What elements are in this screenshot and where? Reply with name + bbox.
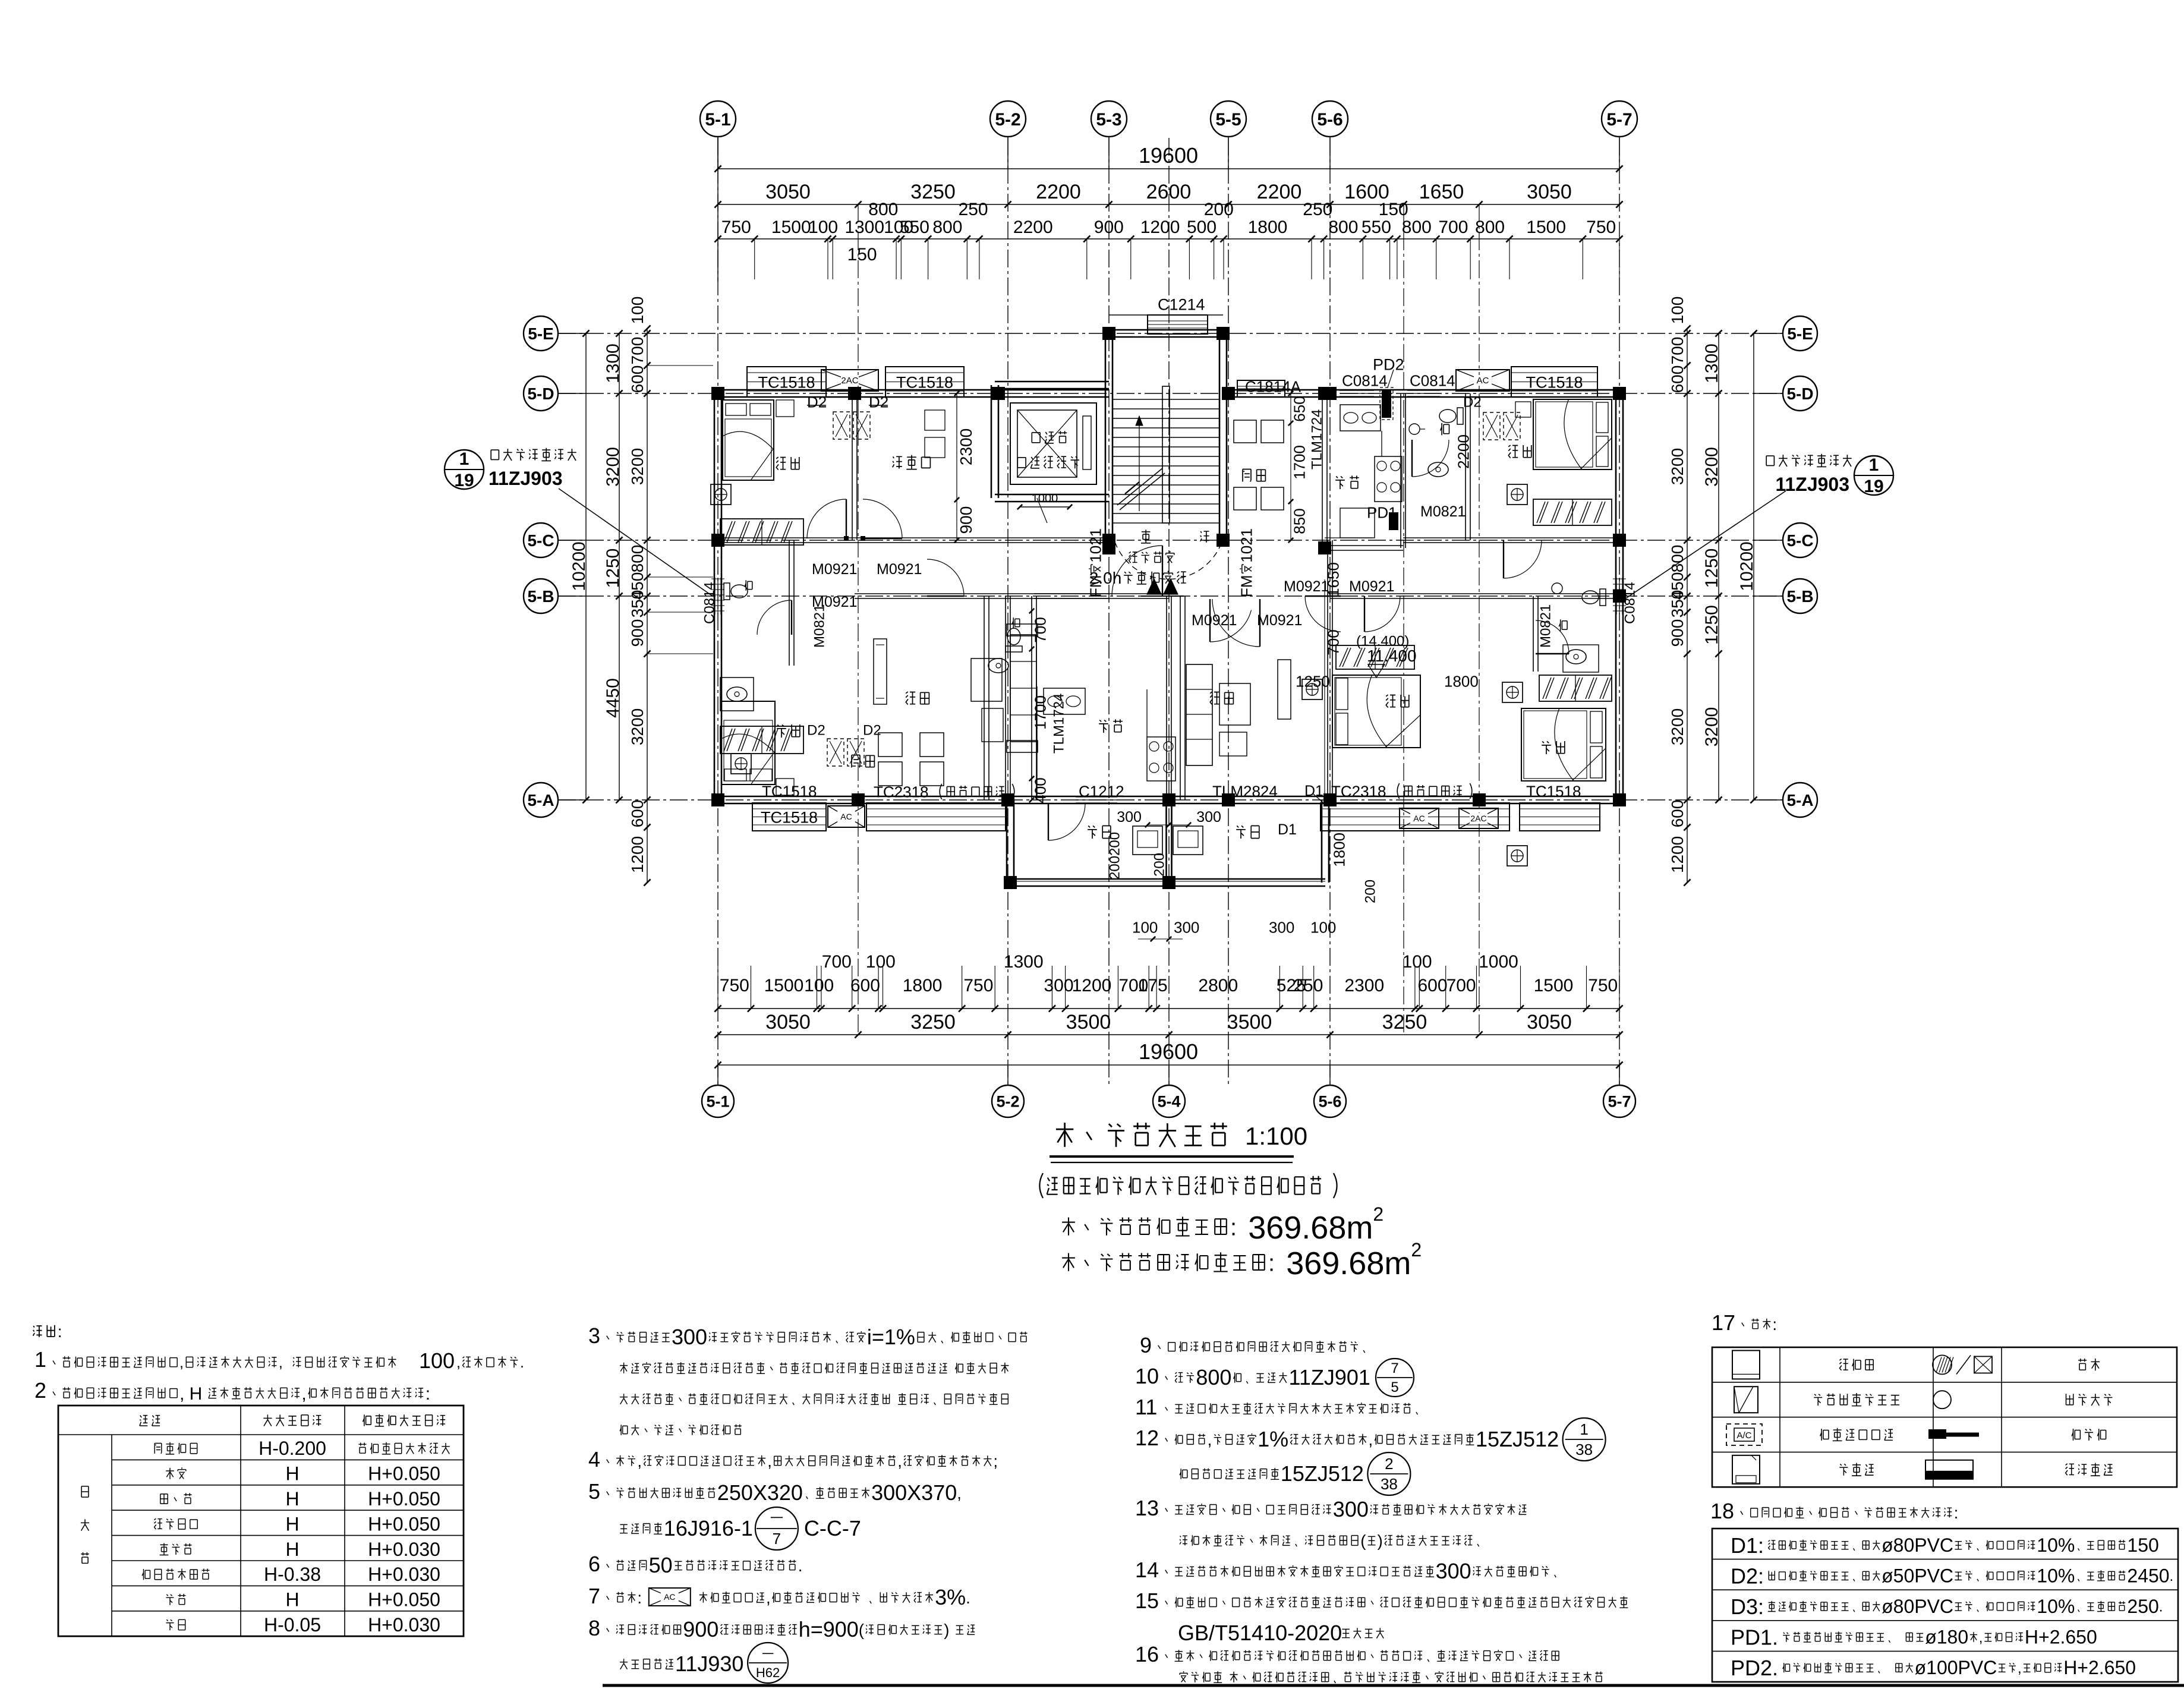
svg-text:,: , [2018, 1660, 2022, 1677]
svg-text:100: 100 [419, 1348, 455, 1373]
svg-text:1:100: 1:100 [1245, 1122, 1307, 1150]
svg-text:1500: 1500 [771, 218, 811, 237]
svg-text:100: 100 [866, 952, 896, 972]
svg-text:800: 800 [1328, 218, 1358, 237]
svg-text:1200: 1200 [1668, 836, 1687, 873]
svg-text:800: 800 [932, 218, 962, 237]
svg-text:2: 2 [1373, 1203, 1383, 1225]
svg-text:,: , [637, 1452, 642, 1470]
svg-text:H+0.050: H+0.050 [368, 1488, 440, 1510]
svg-text:600: 600 [1668, 365, 1687, 393]
svg-text:750: 750 [963, 976, 993, 995]
svg-text:7: 7 [1391, 1360, 1398, 1376]
svg-text:TC1518: TC1518 [761, 809, 818, 827]
svg-text:H-0.200: H-0.200 [259, 1438, 326, 1459]
svg-text:5-7: 5-7 [1608, 1093, 1631, 1111]
svg-text:2: 2 [34, 1378, 46, 1403]
svg-text:2300: 2300 [1344, 976, 1384, 995]
svg-text:50: 50 [649, 1553, 673, 1577]
svg-text:1000: 1000 [1032, 492, 1058, 505]
svg-text:19: 19 [454, 471, 474, 490]
svg-text:D3:: D3: [1731, 1595, 1764, 1619]
svg-text:100: 100 [1310, 918, 1336, 936]
svg-text:300: 300 [1174, 918, 1199, 936]
svg-text:11.400: 11.400 [1367, 647, 1417, 665]
svg-text:5-D: 5-D [1786, 385, 1813, 403]
svg-text:550: 550 [1362, 218, 1391, 237]
svg-text:750: 750 [720, 976, 749, 995]
svg-text:FM: FM [1237, 575, 1255, 597]
svg-text:C1814A: C1814A [1245, 377, 1301, 395]
svg-text:2: 2 [1385, 1455, 1393, 1473]
svg-text:1300: 1300 [1004, 952, 1044, 972]
structural columns [711, 327, 1626, 889]
notes 1-2 [33, 1322, 524, 1404]
right dimension chains [1668, 297, 1757, 886]
svg-text:1500: 1500 [1534, 976, 1574, 995]
svg-text:,: , [456, 1354, 461, 1371]
svg-text:H+0.030: H+0.030 [368, 1539, 440, 1560]
svg-text:H: H [285, 1513, 299, 1534]
svg-text:C0814: C0814 [702, 582, 718, 624]
svg-text:15: 15 [1135, 1589, 1159, 1613]
svg-text:5-B: 5-B [527, 587, 554, 606]
svg-text:300: 300 [1333, 1497, 1369, 1521]
svg-text:ø50PVC: ø50PVC [1882, 1565, 1953, 1586]
svg-text:1700: 1700 [1290, 445, 1308, 480]
svg-text:16J916-1: 16J916-1 [664, 1516, 753, 1540]
svg-text:5-E: 5-E [528, 324, 554, 343]
building walls [714, 330, 1623, 803]
svg-text:H: H [285, 1539, 299, 1560]
svg-text:, H: , H [179, 1384, 202, 1404]
svg-text:M0921: M0921 [1284, 578, 1329, 595]
svg-text:100: 100 [808, 218, 838, 237]
svg-text:600: 600 [1417, 976, 1447, 995]
svg-text:A/C: A/C [1737, 1430, 1751, 1441]
svg-text:D1: D1 [1304, 783, 1323, 799]
svg-text:38: 38 [1381, 1475, 1398, 1493]
svg-text:250: 250 [1293, 976, 1323, 995]
svg-text::: : [1772, 1315, 1777, 1334]
svg-text:7: 7 [588, 1584, 600, 1608]
svg-text:369.68m: 369.68m [1248, 1210, 1373, 1246]
svg-text::: : [637, 1589, 642, 1607]
svg-text:,: , [897, 1452, 902, 1470]
svg-text:1650: 1650 [1324, 562, 1342, 597]
svg-text:300: 300 [1436, 1559, 1471, 1583]
svg-text:3%: 3% [935, 1585, 966, 1609]
svg-text:11ZJ903: 11ZJ903 [1775, 474, 1849, 495]
svg-text:6: 6 [588, 1552, 600, 1576]
svg-text:一: 一 [770, 1511, 783, 1526]
svg-text:PD1.: PD1. [1731, 1625, 1778, 1650]
svg-text:.: . [966, 1589, 970, 1607]
svg-text:15ZJ512: 15ZJ512 [1476, 1427, 1559, 1451]
svg-text:250: 250 [2127, 1596, 2158, 1617]
svg-text:1800: 1800 [1248, 218, 1288, 237]
svg-text:H+0.050: H+0.050 [368, 1463, 440, 1485]
svg-text:600: 600 [628, 365, 647, 393]
svg-text:400: 400 [1031, 777, 1049, 803]
svg-text:1: 1 [459, 449, 469, 469]
svg-text:TC1518: TC1518 [1526, 374, 1583, 392]
right corridor wall and doors [1305, 395, 1520, 632]
svg-text::: : [426, 1384, 430, 1404]
svg-text:AC: AC [840, 812, 852, 821]
svg-text:800: 800 [628, 545, 647, 573]
svg-text:14: 14 [1135, 1558, 1159, 1582]
right unit rooms [1186, 399, 1612, 866]
svg-text:): ) [1378, 1532, 1383, 1550]
svg-text:1000: 1000 [1479, 952, 1518, 972]
svg-text:3200: 3200 [628, 448, 647, 485]
svg-text:(: ( [859, 1621, 865, 1639]
svg-text:ø80PVC: ø80PVC [1882, 1596, 1953, 1617]
svg-text:FM: FM [1086, 575, 1104, 597]
svg-text:350: 350 [1668, 590, 1687, 618]
svg-text:C1212: C1212 [1079, 782, 1124, 800]
svg-text:M0921: M0921 [1257, 612, 1302, 629]
svg-text:8: 8 [588, 1616, 600, 1640]
svg-text:2200: 2200 [1454, 434, 1472, 469]
svg-text:TLM2824: TLM2824 [1212, 782, 1278, 800]
svg-text:5-1: 5-1 [705, 110, 730, 130]
sheet border line [603, 1684, 2184, 1687]
svg-text:5-2: 5-2 [995, 110, 1020, 130]
svg-text:3200: 3200 [1702, 447, 1722, 487]
svg-text:900: 900 [1094, 218, 1124, 237]
left unit bedroom/activity/bath [711, 391, 975, 754]
svg-text:1250: 1250 [1702, 605, 1722, 645]
svg-text:D2: D2 [807, 723, 825, 739]
svg-text:17: 17 [1712, 1310, 1735, 1335]
svg-text:1800: 1800 [1444, 672, 1479, 690]
top grid bubbles 5-1..5-7 [700, 101, 1637, 169]
right callout 1/19 11ZJ903 [1623, 454, 1893, 600]
svg-text:H+0.050: H+0.050 [368, 1513, 440, 1534]
svg-text:19: 19 [1864, 477, 1883, 496]
svg-text:3250: 3250 [910, 1011, 956, 1033]
svg-text:3250: 3250 [910, 181, 956, 203]
svg-text:3: 3 [588, 1324, 600, 1348]
furnishing details [731, 393, 1597, 796]
svg-text:2AC: 2AC [841, 376, 858, 386]
svg-text:700: 700 [1438, 218, 1468, 237]
svg-text:M0921: M0921 [1349, 578, 1394, 595]
svg-text:M0921: M0921 [1192, 612, 1237, 629]
svg-text:H+0.030: H+0.030 [368, 1564, 440, 1585]
svg-text:D2:: D2: [1731, 1564, 1764, 1588]
svg-text:1021: 1021 [1086, 528, 1104, 563]
svg-text:100: 100 [1403, 952, 1432, 972]
svg-text:3250: 3250 [1382, 1011, 1427, 1033]
svg-text:5-C: 5-C [1786, 531, 1813, 550]
svg-text:3200: 3200 [1702, 707, 1722, 747]
svg-text:300: 300 [1269, 918, 1294, 936]
svg-text:10: 10 [1135, 1364, 1159, 1388]
side windows C0814 [702, 578, 1638, 624]
notes 3-8 [588, 1324, 1028, 1683]
svg-text:.: . [2170, 1568, 2174, 1584]
svg-text:19600: 19600 [1139, 143, 1198, 168]
balconies 阳台 [1007, 783, 1379, 941]
svg-text:19600: 19600 [1139, 1039, 1198, 1064]
svg-text:1300: 1300 [603, 344, 623, 383]
svg-text:10%: 10% [2037, 1565, 2075, 1586]
svg-text:): ) [944, 1621, 949, 1639]
svg-text:,: , [766, 1589, 771, 1607]
svg-text:5-C: 5-C [527, 531, 554, 550]
stair with treads and arrows [1089, 386, 1222, 596]
svg-text:PD2: PD2 [1373, 356, 1404, 374]
svg-text:ø100PVC: ø100PVC [1915, 1657, 1997, 1678]
svg-text:11: 11 [1135, 1395, 1157, 1419]
svg-text:7: 7 [773, 1530, 781, 1548]
svg-text:5-2: 5-2 [996, 1093, 1019, 1111]
svg-text:D1:: D1: [1731, 1533, 1764, 1558]
svg-text:,: , [1979, 1630, 1983, 1646]
svg-text:5-B: 5-B [1786, 587, 1813, 606]
svg-text:12: 12 [1135, 1426, 1159, 1450]
svg-text:38: 38 [1575, 1441, 1593, 1458]
svg-text:700: 700 [822, 952, 852, 972]
svg-text:1200: 1200 [1140, 218, 1180, 237]
svg-text:13: 13 [1135, 1496, 1159, 1520]
svg-text:D1: D1 [1278, 821, 1297, 838]
svg-text:650: 650 [1290, 396, 1308, 421]
svg-text:300: 300 [1044, 976, 1073, 995]
svg-text:M0821: M0821 [1420, 503, 1466, 520]
svg-text:3050: 3050 [765, 1011, 811, 1033]
svg-text:300: 300 [672, 1325, 707, 1349]
svg-text:1700: 1700 [1031, 695, 1049, 730]
notes 9-16 [1135, 1333, 1628, 1683]
svg-text:350: 350 [628, 590, 647, 618]
svg-text:TC1518: TC1518 [1526, 782, 1581, 800]
svg-text:,: , [1208, 1430, 1212, 1449]
svg-text:1500: 1500 [764, 976, 804, 995]
svg-text:10200: 10200 [569, 541, 589, 591]
svg-text:16: 16 [1135, 1642, 1159, 1666]
svg-text:ø180: ø180 [1925, 1627, 1968, 1648]
svg-text:.: . [2159, 1599, 2163, 1615]
svg-text:C0814: C0814 [1622, 582, 1638, 624]
svg-text:M0821: M0821 [1538, 604, 1554, 648]
svg-text:AC: AC [1477, 376, 1489, 386]
svg-text:5-E: 5-E [1787, 324, 1813, 343]
svg-text:600: 600 [1668, 800, 1687, 828]
svg-text:250: 250 [959, 200, 988, 219]
svg-text:15ZJ512: 15ZJ512 [1281, 1461, 1364, 1486]
svg-text:H-0.38: H-0.38 [264, 1564, 321, 1585]
svg-text:1200: 1200 [628, 836, 647, 873]
svg-text:1500: 1500 [1526, 218, 1566, 237]
title 四、五层平面图 1:100 [1039, 1122, 1422, 1281]
svg-text:2AC: 2AC [1470, 814, 1486, 823]
svg-text:9: 9 [1140, 1333, 1152, 1357]
svg-text:150: 150 [1379, 200, 1408, 219]
svg-text:1300: 1300 [1702, 344, 1722, 383]
svg-text:150: 150 [847, 245, 877, 264]
left dimension chains [569, 297, 713, 886]
svg-text:3050: 3050 [1527, 181, 1572, 203]
svg-text:200200: 200200 [1107, 832, 1123, 880]
bottom grid bubbles [702, 1065, 1635, 1117]
svg-text:H62: H62 [756, 1665, 780, 1680]
svg-text:ø80PVC: ø80PVC [1882, 1534, 1953, 1556]
svg-text:800: 800 [1402, 218, 1432, 237]
svg-text:AC: AC [664, 1592, 675, 1602]
svg-text:2200: 2200 [1257, 181, 1302, 203]
svg-text:5-5: 5-5 [1215, 110, 1241, 130]
svg-text:H+0.030: H+0.030 [368, 1614, 440, 1636]
svg-text:900: 900 [957, 506, 975, 534]
svg-text:C1214: C1214 [1158, 296, 1205, 314]
svg-text:PD2.: PD2. [1731, 1656, 1778, 1680]
svg-text:.: . [520, 1354, 524, 1371]
svg-text:200: 200 [1363, 880, 1379, 903]
svg-text:H-0.05: H-0.05 [264, 1614, 321, 1636]
svg-text:800: 800 [868, 200, 898, 219]
svg-text:2600: 2600 [1146, 181, 1192, 203]
svg-text:4: 4 [588, 1447, 600, 1471]
floor level table [58, 1406, 464, 1636]
svg-text:H+2.650: H+2.650 [2063, 1657, 2136, 1678]
svg-text:100: 100 [1668, 297, 1687, 324]
svg-text:750: 750 [721, 218, 751, 237]
svg-text:300X370: 300X370 [871, 1480, 957, 1505]
svg-text:1: 1 [1869, 455, 1879, 475]
svg-text::: : [1230, 1214, 1237, 1240]
svg-text:1300: 1300 [844, 218, 884, 237]
svg-text:M0921: M0921 [877, 561, 922, 578]
svg-text:11J930: 11J930 [675, 1652, 743, 1676]
svg-text:800: 800 [1475, 218, 1505, 237]
svg-text:1800: 1800 [903, 976, 943, 995]
svg-text:11ZJ903: 11ZJ903 [489, 468, 563, 489]
svg-text:550: 550 [900, 218, 929, 237]
svg-text:h=900: h=900 [799, 1617, 859, 1641]
svg-text:3200: 3200 [603, 447, 623, 487]
svg-text:1200: 1200 [1072, 976, 1112, 995]
svg-text:10%: 10% [2037, 1596, 2075, 1617]
svg-text:900: 900 [1668, 619, 1687, 647]
svg-text:2300: 2300 [957, 428, 975, 465]
svg-text:5-6: 5-6 [1318, 1093, 1341, 1111]
svg-text:100: 100 [1132, 918, 1158, 936]
svg-text:3500: 3500 [1066, 1011, 1111, 1033]
svg-text:800: 800 [1196, 1365, 1231, 1389]
svg-text:200: 200 [1152, 853, 1168, 877]
centre unit dining/kitchen/bath [1234, 391, 1472, 543]
elevator (无机房无障碍电梯) [991, 382, 1109, 523]
svg-text:1250: 1250 [1702, 549, 1722, 588]
svg-text:4450: 4450 [603, 678, 623, 718]
bottom dimension chains [714, 952, 1622, 1069]
svg-text:750: 750 [1588, 976, 1618, 995]
svg-text:600: 600 [628, 800, 647, 828]
svg-text:700: 700 [1324, 629, 1342, 655]
svg-text:5: 5 [1391, 1379, 1398, 1395]
svg-text:TC2318: TC2318 [1331, 782, 1386, 800]
svg-text:3200: 3200 [1668, 708, 1687, 745]
svg-text:,: , [279, 1354, 283, 1371]
svg-text:H+2.650: H+2.650 [2025, 1627, 2097, 1648]
right grid bubbles [1754, 316, 1817, 817]
svg-text:,: , [1369, 1430, 1373, 1449]
svg-text:1650: 1650 [1419, 181, 1464, 203]
svg-text:1021: 1021 [1237, 528, 1255, 563]
svg-text:2: 2 [1411, 1239, 1422, 1261]
svg-text:TC1518: TC1518 [758, 374, 815, 392]
svg-text:AC: AC [1413, 814, 1425, 823]
svg-text:D2: D2 [807, 393, 827, 411]
hole schedule table 18 [1710, 1499, 2178, 1682]
legend table 17 [1712, 1310, 2177, 1487]
svg-text:175: 175 [1138, 976, 1168, 995]
svg-text:5-A: 5-A [527, 791, 554, 809]
top windows and AC platforms [747, 296, 1597, 420]
svg-text:TLM1724: TLM1724 [1309, 409, 1325, 469]
svg-text:700: 700 [628, 337, 647, 365]
svg-text::: : [1268, 1250, 1275, 1276]
svg-text:2450: 2450 [2127, 1565, 2169, 1586]
svg-text:5-6: 5-6 [1317, 110, 1342, 130]
svg-text:100: 100 [804, 976, 834, 995]
svg-text:10%: 10% [2037, 1534, 2075, 1556]
svg-text:3050: 3050 [765, 181, 811, 203]
left unit lower rooms [721, 596, 1175, 803]
svg-text:M0921: M0921 [812, 561, 857, 578]
left grid bubbles [524, 316, 586, 817]
svg-text:1: 1 [34, 1347, 46, 1372]
svg-text:C0814: C0814 [1342, 371, 1388, 389]
svg-text:,: , [767, 1452, 772, 1470]
top dimension chains [714, 138, 1622, 282]
svg-text:H: H [285, 1488, 299, 1510]
svg-text:3500: 3500 [1227, 1011, 1272, 1033]
svg-text:C-C-7: C-C-7 [804, 1516, 861, 1540]
svg-text:2800: 2800 [1198, 976, 1238, 995]
svg-text:GB/T51410-2020: GB/T51410-2020 [1178, 1621, 1342, 1645]
svg-text:850: 850 [1290, 508, 1308, 534]
svg-text:369.68m: 369.68m [1286, 1246, 1411, 1281]
svg-text:H: H [285, 1463, 299, 1485]
svg-text:;: ; [993, 1452, 998, 1470]
svg-text:900: 900 [628, 619, 647, 647]
svg-text:600: 600 [850, 976, 880, 995]
svg-text:300: 300 [1196, 809, 1221, 825]
fire doors FM乙1021 [1086, 528, 1260, 647]
svg-text:3200: 3200 [1668, 448, 1687, 485]
bottom windows [752, 782, 1600, 831]
svg-text:TLM1724: TLM1724 [1051, 694, 1067, 754]
svg-text:1800: 1800 [1330, 833, 1348, 867]
svg-text:i=1%: i=1% [867, 1325, 915, 1349]
svg-text:5-D: 5-D [527, 385, 554, 403]
svg-text:900: 900 [683, 1617, 718, 1641]
svg-text:M0821: M0821 [812, 604, 828, 648]
svg-text:,: , [957, 1484, 962, 1502]
svg-text:250: 250 [1303, 200, 1332, 219]
svg-text:300: 300 [1117, 809, 1142, 825]
svg-text:3050: 3050 [1527, 1011, 1572, 1033]
svg-text:.: . [798, 1556, 803, 1575]
svg-text:TC1518: TC1518 [896, 374, 953, 392]
svg-text:H+0.050: H+0.050 [368, 1589, 440, 1611]
svg-text:H: H [285, 1589, 299, 1611]
